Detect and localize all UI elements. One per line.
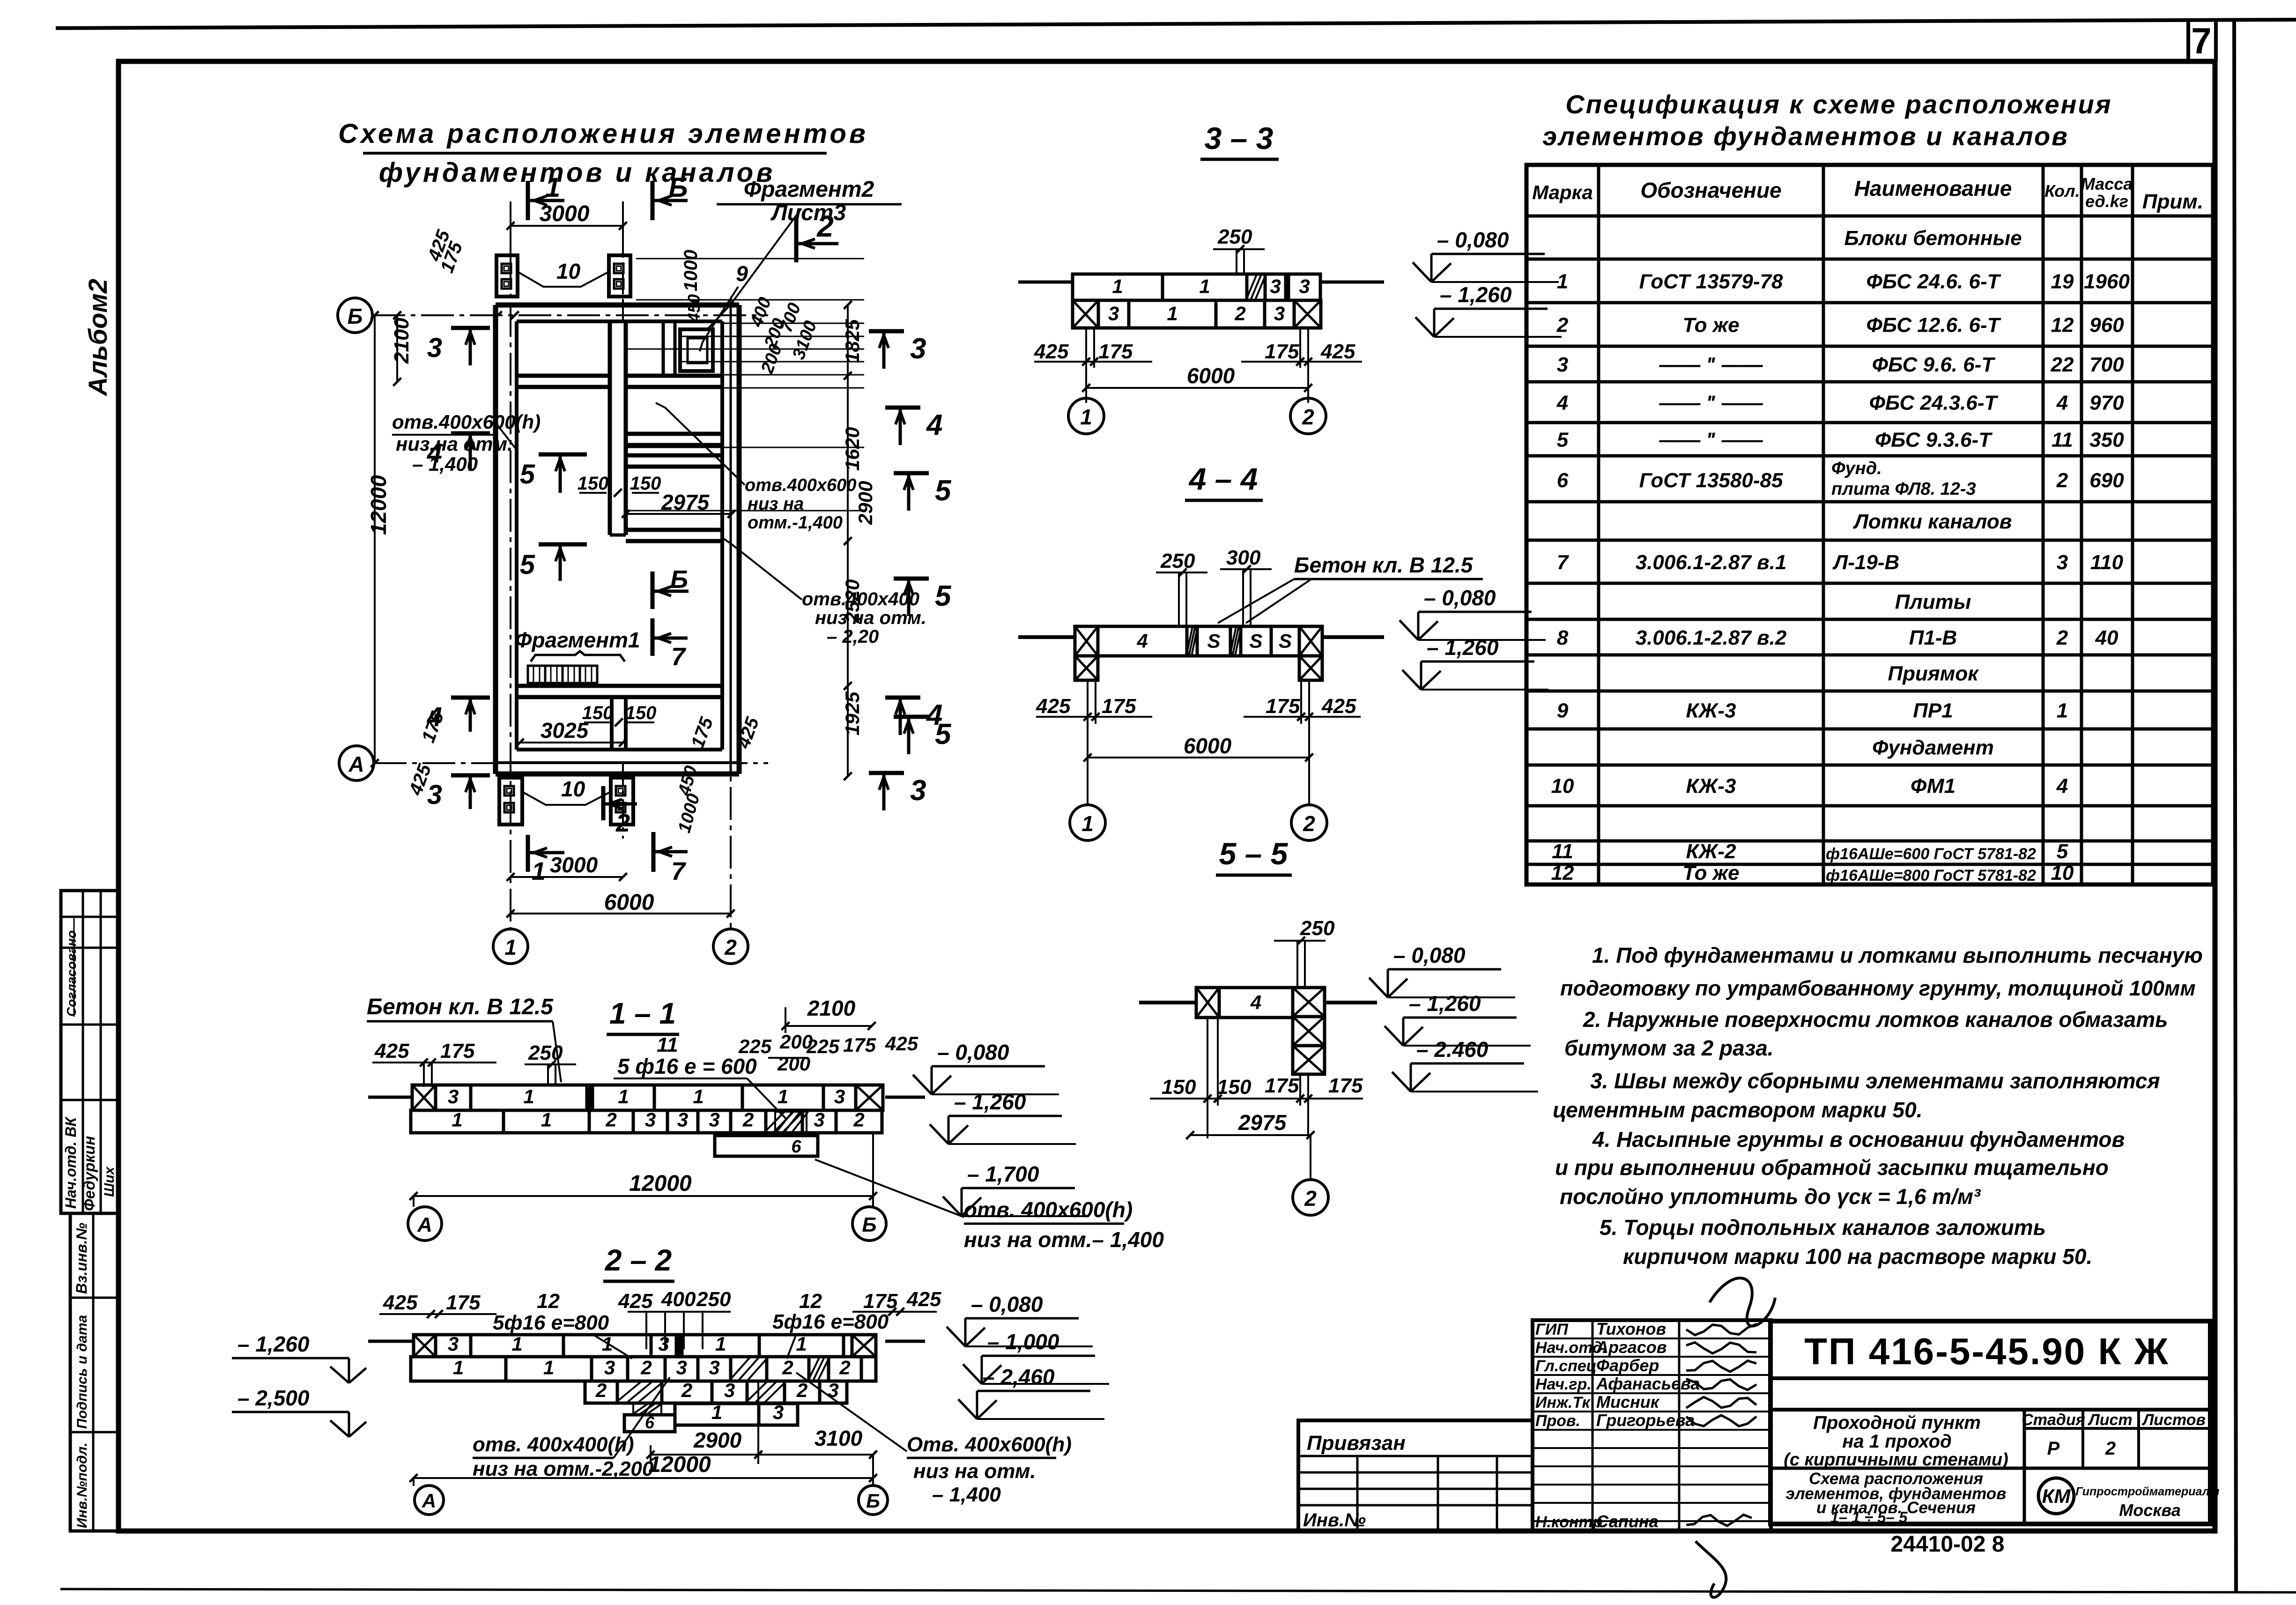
plan wall D horizontal: [626, 528, 722, 532]
svg-text:2: 2: [1302, 405, 1314, 429]
svg-text:Плиты: Плиты: [1895, 591, 1971, 614]
svg-text:2100: 2100: [390, 318, 413, 364]
section 2-2 footing 6: [624, 1415, 675, 1432]
svg-text:4: 4: [1556, 392, 1568, 415]
title block project name: [1770, 1467, 2210, 1470]
svg-text:150: 150: [625, 703, 657, 723]
svg-text:12: 12: [2051, 314, 2074, 337]
axis line A: [374, 762, 768, 764]
svg-text:S: S: [1207, 630, 1220, 652]
svg-text:Гл.спец: Гл.спец: [1535, 1357, 1597, 1375]
svg-text:2: 2: [1303, 811, 1315, 836]
svg-text:—— ʺ ——: —— ʺ ——: [1659, 429, 1763, 452]
svg-text:4: 4: [1250, 991, 1261, 1013]
svg-text:3: 3: [645, 1109, 656, 1131]
svg-text:1. Под фундаментами и лоткам: 1. Под фундаментами и лотками выполнить …: [1592, 943, 2203, 967]
svg-text:– 1,000: – 1,000: [987, 1330, 1059, 1354]
svg-text:12000: 12000: [366, 475, 391, 535]
svg-text:Ших: Ших: [102, 1166, 117, 1197]
section mark 4 right bottom: [885, 696, 920, 700]
axis circle 2 bottom: [713, 929, 748, 964]
svg-text:10: 10: [556, 259, 581, 283]
svg-text:450: 450: [684, 294, 704, 323]
svg-text:6000: 6000: [1187, 364, 1235, 388]
svg-text:фундаментов и каналов: фундаментов и каналов: [379, 157, 776, 188]
svg-text:– 1,260: – 1,260: [1409, 991, 1481, 1016]
svg-text:1: 1: [511, 1333, 522, 1355]
section mark B top: [651, 181, 655, 220]
svg-text:250: 250: [1300, 917, 1335, 940]
svg-text:Фунд.: Фунд.: [1831, 459, 1882, 478]
section mark 3 left: [451, 326, 490, 330]
svg-text:7: 7: [1557, 551, 1570, 574]
svg-text:175: 175: [863, 1290, 898, 1313]
axis column line 1: [510, 255, 511, 929]
svg-text:225: 225: [806, 1035, 840, 1057]
svg-text:ПР1: ПР1: [1913, 699, 1953, 722]
plan right dim chain: [847, 305, 849, 776]
svg-text:2900: 2900: [693, 1428, 742, 1452]
svg-text:Кол.: Кол.: [2044, 181, 2080, 201]
svg-text:ФБС 24.6. 6-Т: ФБС 24.6. 6-Т: [1866, 270, 2001, 293]
svg-text:1: 1: [618, 1085, 629, 1107]
sheet outer right border: [2234, 20, 2236, 1593]
svg-text:425: 425: [383, 1291, 418, 1314]
svg-text:110: 110: [2090, 551, 2124, 574]
svg-text:на 1 проход: на 1 проход: [1842, 1431, 1952, 1452]
svg-text:Фарбер: Фарбер: [1596, 1356, 1659, 1375]
svg-text:40: 40: [2095, 626, 2118, 649]
svg-text:7: 7: [2191, 20, 2211, 61]
section mark 5 right bottom: [894, 715, 929, 719]
svg-text:3: 3: [910, 333, 926, 365]
svg-text:3: 3: [1557, 353, 1568, 376]
svg-text:2: 2: [742, 1109, 754, 1131]
svg-text:Приямок: Приямок: [1888, 662, 1979, 685]
svg-text:1: 1: [2057, 699, 2068, 722]
svg-text:1: 1: [504, 935, 517, 959]
section mark 7 bottom: [652, 832, 656, 872]
section 1-1 top row: [412, 1085, 436, 1110]
svg-text:175: 175: [1102, 695, 1136, 718]
section mark 5 in plan lower: [539, 542, 587, 547]
svg-text:– 1,260: – 1,260: [237, 1332, 310, 1356]
svg-text:12: 12: [537, 1290, 560, 1313]
svg-text:– 2,20: – 2,20: [827, 626, 879, 647]
svg-text:2: 2: [839, 1356, 850, 1378]
plan wall B horizontal: [626, 432, 722, 436]
sheet number box line: [2186, 21, 2190, 61]
section mark 2 top right: [794, 218, 799, 262]
plan outer wall left: [493, 305, 498, 774]
svg-text:5 ф16 е = 600: 5 ф16 е = 600: [617, 1054, 757, 1078]
svg-text:8: 8: [1557, 626, 1569, 649]
svg-text:10: 10: [1551, 775, 1574, 798]
svg-text:—— ʺ ——: —— ʺ ——: [1659, 353, 1763, 376]
svg-text:Фрагмент2: Фрагмент2: [744, 177, 874, 202]
svg-text:24410-02 8: 24410-02 8: [1891, 1532, 2005, 1557]
svg-text:1 – 1: 1 – 1: [609, 996, 676, 1030]
svg-text:– 1,400: – 1,400: [412, 453, 478, 475]
svg-text:элементов фундаментов и кан: элементов фундаментов и каналов: [1542, 121, 2069, 151]
section mark 2 bottom: [601, 786, 606, 820]
section mark 4 right: [885, 406, 920, 410]
svg-text:22: 22: [2051, 353, 2074, 376]
svg-text:Наименование: Наименование: [1854, 176, 2012, 201]
svg-text:3: 3: [604, 1356, 615, 1378]
svg-text:отв. 400х600(h): отв. 400х600(h): [964, 1197, 1133, 1222]
svg-text:– 0,080: – 0,080: [971, 1292, 1043, 1316]
svg-text:1: 1: [452, 1109, 462, 1131]
svg-text:225: 225: [738, 1035, 772, 1057]
section mark 3 right bottom: [869, 771, 904, 775]
section 3-3 ground lines: [1018, 281, 1073, 284]
svg-text:– 0,080: – 0,080: [1424, 586, 1496, 610]
svg-text:3: 3: [677, 1109, 688, 1131]
svg-text:10: 10: [561, 777, 585, 801]
svg-text:2: 2: [1234, 302, 1245, 324]
svg-text:970: 970: [2089, 392, 2124, 415]
svg-text:1960: 1960: [2084, 270, 2130, 293]
svg-text:Марка: Марка: [1532, 181, 1593, 203]
section 2-2 second row: [411, 1357, 506, 1381]
svg-text:150: 150: [1162, 1076, 1196, 1099]
svg-text:6000: 6000: [1184, 734, 1232, 758]
svg-text:200: 200: [777, 1053, 810, 1075]
svg-text:S: S: [1279, 630, 1292, 652]
svg-text:10: 10: [2051, 862, 2074, 884]
svg-text:11: 11: [1552, 840, 1573, 863]
svg-text:1: 1: [1081, 811, 1094, 836]
section 1-1 ground lines: [368, 1096, 412, 1099]
svg-text:низ на: низ на: [748, 494, 804, 514]
svg-text:250: 250: [696, 1288, 731, 1311]
svg-text:отв.400х600: отв.400х600: [745, 476, 856, 495]
svg-text:КЖ-2: КЖ-2: [1686, 840, 1737, 863]
svg-text:250: 250: [1217, 225, 1252, 248]
svg-text:ГоСТ 13579-78: ГоСТ 13579-78: [1639, 270, 1783, 293]
svg-text:Лист: Лист: [2087, 1411, 2132, 1429]
svg-text:Инв.№: Инв.№: [1303, 1510, 1366, 1531]
section 1-1 bottom row: [411, 1110, 504, 1133]
big signature flourish: [1710, 1278, 1775, 1326]
plan left dim 12000: [374, 315, 376, 763]
svg-text:2975: 2975: [1238, 1110, 1287, 1135]
svg-text:250: 250: [528, 1041, 563, 1064]
svg-text:ед.kг: ед.kг: [2085, 192, 2128, 211]
svg-text:отв. 400х400(h): отв. 400х400(h): [473, 1433, 634, 1456]
svg-text:2900: 2900: [854, 481, 876, 525]
svg-text:3: 3: [834, 1085, 845, 1107]
section mark 5 right lower: [894, 577, 929, 581]
svg-text:2: 2: [2105, 1438, 2116, 1459]
svg-text:1: 1: [453, 1356, 464, 1378]
svg-text:1000: 1000: [681, 250, 701, 291]
svg-text:4: 4: [427, 438, 442, 468]
svg-text:Б: Б: [862, 1213, 876, 1236]
svg-text:КЖ-3: КЖ-3: [1686, 775, 1736, 798]
axis column line 2: [730, 300, 732, 929]
plan outer wall bottom: [496, 772, 739, 777]
svg-text:3: 3: [1274, 302, 1285, 324]
lower stamp box: [70, 1213, 119, 1531]
svg-text:Стадия: Стадия: [2022, 1411, 2085, 1429]
svg-text:2: 2: [1304, 1186, 1317, 1211]
svg-text:Масса: Масса: [2081, 174, 2133, 193]
svg-text:2: 2: [595, 1379, 607, 1401]
svg-text:низ на отм.: низ на отм.: [913, 1460, 1036, 1483]
svg-text:П1-В: П1-В: [1909, 626, 1957, 649]
svg-text:Б: Б: [668, 172, 688, 203]
svg-text:(с кирпичными стенами): (с кирпичными стенами): [1784, 1450, 2008, 1470]
privyazan box: [1298, 1420, 1533, 1531]
top pilaster 2: [609, 255, 630, 297]
section 2-2 fourth row: [675, 1404, 759, 1425]
plan outer wall right: [737, 305, 742, 774]
svg-text:3: 3: [1299, 275, 1310, 297]
svg-text:Аргасов: Аргасов: [1596, 1337, 1667, 1357]
svg-text:– 2,500: – 2,500: [237, 1386, 310, 1410]
svg-text:Р: Р: [2047, 1438, 2060, 1459]
svg-text:1: 1: [532, 857, 546, 885]
svg-text:175: 175: [446, 1291, 481, 1314]
svg-text:А: А: [422, 1490, 436, 1512]
section 4-4 block row: [1075, 626, 1098, 656]
svg-text:425: 425: [374, 1040, 409, 1063]
svg-text:5: 5: [520, 550, 535, 580]
svg-text:11: 11: [2052, 429, 2073, 452]
svg-text:низ на отм.– 1,400: низ на отм.– 1,400: [964, 1227, 1164, 1252]
svg-text:3025: 3025: [541, 718, 589, 743]
svg-text:12000: 12000: [648, 1452, 711, 1477]
svg-text:отм.-1,400: отм.-1,400: [748, 513, 843, 533]
svg-text:425: 425: [885, 1033, 918, 1055]
svg-text:ФБС 24.3.6-Т: ФБС 24.3.6-Т: [1869, 392, 1999, 415]
section 3-3 upper row: [1073, 274, 1163, 300]
section 4-4 ground lines: [1018, 635, 1075, 639]
plan left dim 2100: [396, 315, 398, 382]
plan wall A horizontal: [517, 374, 610, 378]
plan wall C horizontal: [626, 453, 722, 458]
section 3-3 axis circles: [1085, 388, 1087, 398]
section mark 4 left bottom: [451, 696, 490, 700]
svg-text:– 2,460: – 2,460: [983, 1365, 1055, 1389]
svg-text:1: 1: [693, 1085, 704, 1107]
svg-text:175: 175: [1266, 695, 1300, 718]
svg-text:3100: 3100: [815, 1426, 863, 1450]
svg-text:2100: 2100: [807, 996, 856, 1020]
svg-text:– 2.460: – 2.460: [1416, 1037, 1489, 1062]
section mark 1 bottom: [526, 835, 530, 872]
svg-text:1: 1: [778, 1085, 788, 1107]
svg-text:цементным раствором марки: цементным раствором марки 50.: [1553, 1098, 1922, 1122]
svg-text:3000: 3000: [550, 853, 598, 877]
section 2-2 third row: [585, 1381, 617, 1403]
svg-text:низ на отм.-2,200: низ на отм.-2,200: [473, 1457, 654, 1480]
svg-text:кирпичом марки 100 на раство: кирпичом марки 100 на растворе марки 50.: [1623, 1244, 2092, 1269]
svg-text:– 1,260: – 1,260: [1440, 282, 1512, 307]
svg-text:1825: 1825: [841, 319, 863, 363]
svg-text:Инж.Тк: Инж.Тк: [1535, 1394, 1591, 1412]
svg-text:425: 425: [1320, 340, 1355, 363]
svg-text:Фрагмент1: Фрагмент1: [515, 628, 640, 652]
section mark 4 left: [451, 431, 490, 436]
svg-text:175: 175: [1328, 1074, 1363, 1097]
top pilaster 1: [496, 255, 518, 297]
svg-text:700: 700: [2089, 353, 2124, 376]
svg-text:ГИП: ГИП: [1535, 1321, 1569, 1338]
svg-text:Москва: Москва: [2119, 1501, 2181, 1520]
svg-text:3: 3: [814, 1109, 824, 1131]
title block stadia header: [2023, 1410, 2026, 1524]
svg-text:ТП 416-5-45.90 К Ж: ТП 416-5-45.90 К Ж: [1804, 1330, 2170, 1372]
svg-text:1: 1: [1557, 270, 1568, 293]
svg-text:Бетон кл. В 12.5: Бетон кл. В 12.5: [367, 995, 554, 1019]
svg-text:– 1,400: – 1,400: [932, 1483, 1001, 1506]
axis circle B: [338, 298, 372, 333]
svg-text:12: 12: [1551, 862, 1574, 884]
svg-text:битумом за 2 раза.: битумом за 2 раза.: [1564, 1036, 1774, 1060]
svg-text:1: 1: [545, 172, 560, 203]
svg-text:9: 9: [1557, 699, 1569, 722]
section mark 3 right: [869, 329, 904, 334]
svg-text:12000: 12000: [629, 1171, 692, 1196]
svg-text:3: 3: [709, 1109, 719, 1131]
svg-text:ФБС 12.6. 6-Т: ФБС 12.6. 6-Т: [1866, 314, 2001, 337]
plan center channel wall: [608, 321, 612, 535]
svg-text:4 – 4: 4 – 4: [1188, 461, 1258, 496]
svg-text:7: 7: [671, 643, 687, 671]
svg-text:3. Швы между сборными элемен: 3. Швы между сборными элементами заполня…: [1590, 1069, 2160, 1093]
svg-text:1620: 1620: [841, 427, 863, 471]
svg-text:Б: Б: [866, 1490, 880, 1512]
section 1-1 axis circles: [413, 1196, 415, 1207]
svg-text:175: 175: [1098, 340, 1133, 363]
svg-text:То же: То же: [1682, 862, 1739, 884]
svg-text:Листов: Листов: [2141, 1411, 2206, 1429]
bottom pilaster 1: [499, 778, 522, 825]
svg-text:2: 2: [782, 1356, 793, 1378]
svg-text:175: 175: [1265, 1074, 1299, 1097]
svg-text:ф16АШе=800 ГоСТ 5781-82: ф16АШе=800 ГоСТ 5781-82: [1826, 867, 2036, 884]
svg-text:Блоки бетонные: Блоки бетонные: [1844, 227, 2022, 250]
svg-text:5: 5: [2057, 840, 2068, 863]
svg-text:Б: Б: [670, 565, 688, 594]
svg-text:Подпись и дата: Подпись и дата: [74, 1315, 90, 1429]
svg-text:Спецификация к схеме распол: Спецификация к схеме расположения: [1565, 89, 2112, 119]
section 2-2 axis circles: [413, 1478, 415, 1486]
axis line B: [372, 314, 768, 316]
svg-text:Согласовано: Согласовано: [64, 930, 79, 1017]
svg-text:6: 6: [1557, 469, 1569, 492]
svg-text:– 1,700: – 1,700: [967, 1162, 1039, 1186]
svg-text:5 – 5: 5 – 5: [1219, 836, 1289, 871]
svg-text:подготовку по утрамбованному: подготовку по утрамбованному грунту, тол…: [1560, 976, 2196, 1000]
svg-text:960: 960: [2089, 314, 2124, 337]
plan pit PR1: [680, 329, 713, 371]
svg-text:5ф16 е=800: 5ф16 е=800: [772, 1310, 889, 1333]
svg-text:3: 3: [448, 1333, 459, 1355]
svg-text:3: 3: [2057, 551, 2068, 574]
svg-text:2 – 2: 2 – 2: [605, 1243, 672, 1277]
section mark 3 left bottom: [451, 773, 490, 778]
svg-text:350: 350: [2089, 429, 2124, 452]
sheet outer bottom border: [60, 1589, 2296, 1592]
svg-text:– 0,080: – 0,080: [1437, 228, 1509, 252]
svg-text:1: 1: [1112, 275, 1123, 297]
svg-text:Отв. 400х600(h): Отв. 400х600(h): [907, 1433, 1072, 1456]
svg-text:—— ʺ ——: —— ʺ ——: [1659, 392, 1763, 415]
svg-text:– 1,260: – 1,260: [954, 1090, 1026, 1114]
section 3-3 lower row: [1073, 300, 1098, 328]
svg-text:6: 6: [645, 1413, 655, 1432]
svg-text:послойно уплотнить до γск =: послойно уплотнить до γск = 1,6 т/м³: [1560, 1184, 1981, 1209]
svg-text:ФБС 9.6. 6-Т: ФБС 9.6. 6-Т: [1872, 353, 1996, 376]
svg-text:– 0,080: – 0,080: [1393, 943, 1466, 967]
plan upper right room wall: [662, 321, 665, 376]
svg-text:400: 400: [661, 1288, 696, 1311]
plan bottom rooms wall: [517, 684, 722, 688]
svg-text:Проходной пункт: Проходной пункт: [1813, 1412, 1981, 1433]
svg-text:Мисник: Мисник: [1596, 1392, 1660, 1412]
svg-text:отв.400х400: отв.400х400: [802, 589, 919, 609]
svg-text:S: S: [1249, 630, 1262, 652]
svg-text:175: 175: [440, 1040, 475, 1063]
svg-text:ФМ1: ФМ1: [1911, 775, 1955, 798]
svg-text:Вз.инв.№: Вз.инв.№: [73, 1223, 90, 1294]
svg-text:Нач.отд. ВК: Нач.отд. ВК: [62, 1116, 79, 1209]
svg-text:низ на отм.: низ на отм.: [815, 608, 926, 628]
svg-text:4: 4: [2056, 775, 2068, 798]
svg-text:отв.400х600(h): отв.400х600(h): [392, 411, 541, 433]
svg-text:и при выполнении обратной: и при выполнении обратной засыпки тщател…: [1555, 1155, 2109, 1180]
svg-text:5: 5: [935, 475, 952, 507]
svg-text:Нач.гр.: Нач.гр.: [1535, 1375, 1592, 1393]
svg-text:250: 250: [1160, 550, 1195, 572]
signature table: [1533, 1320, 1771, 1531]
svg-text:4. Насыпные грунты в основан: 4. Насыпные грунты в основании фундамент…: [1592, 1127, 2125, 1152]
section 4-4 right column: [1299, 656, 1322, 680]
svg-text:19: 19: [2051, 270, 2074, 293]
svg-text:1: 1: [543, 1356, 554, 1378]
svg-text:2: 2: [853, 1109, 864, 1131]
svg-text:Инв.№подл.: Инв.№подл.: [74, 1442, 90, 1528]
svg-text:3.006.1-2.87 в.1: 3.006.1-2.87 в.1: [1636, 551, 1787, 574]
svg-text:Привязан: Привязан: [1307, 1432, 1406, 1455]
svg-text:3: 3: [724, 1379, 735, 1401]
svg-text:2. Наружные поверхности лот: 2. Наружные поверхности лотков каналов о…: [1583, 1007, 2168, 1032]
section 4-4 left column: [1075, 656, 1098, 680]
svg-text:Схема расположения элементов: Схема расположения элементов: [338, 119, 868, 149]
svg-text:2: 2: [681, 1379, 692, 1401]
svg-text:2: 2: [640, 1356, 652, 1378]
svg-text:Прим.: Прим.: [2142, 190, 2203, 213]
svg-text:Фундамент: Фундамент: [1872, 736, 1994, 759]
svg-text:1: 1: [541, 1109, 552, 1131]
svg-text:3.006.1-2.87 в.2: 3.006.1-2.87 в.2: [1636, 626, 1787, 649]
svg-text:Пров.: Пров.: [1535, 1412, 1580, 1430]
svg-text:Лотки каналов: Лотки каналов: [1853, 510, 2012, 533]
svg-text:2: 2: [2056, 626, 2068, 649]
section 4-4 axis circles: [1087, 758, 1089, 805]
section mark 5 right upper: [894, 471, 929, 476]
section 5-5 beam: [1196, 988, 1219, 1018]
fragment1 blocks: [528, 666, 545, 683]
svg-text:5: 5: [520, 459, 535, 490]
svg-text:Тихонов: Тихонов: [1596, 1319, 1666, 1338]
svg-text:А: А: [348, 752, 364, 776]
section 2-2 top row: [414, 1335, 436, 1357]
